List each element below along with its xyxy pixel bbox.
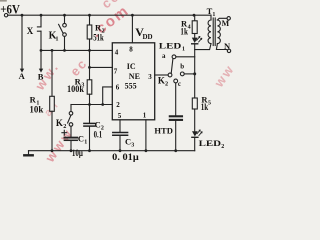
node dot rail-R1: [51, 149, 54, 152]
svg-text:51k: 51k: [93, 32, 104, 42]
node dot rail-pin8: [131, 14, 134, 17]
terminal M: [222, 17, 231, 29]
op IC U1 NE555 box: [112, 43, 154, 120]
svg-text:1k: 1k: [201, 102, 209, 112]
wire pins2-6 node line: [71, 104, 112, 106]
power terminal +6V: [0, 1, 20, 17]
resistor R4 1k: [180, 15, 197, 37]
node dot pin7: [88, 66, 91, 69]
node dot R3-C2: [88, 103, 91, 106]
svg-text:2: 2: [63, 123, 66, 130]
svg-text:C: C: [95, 119, 101, 129]
buzzer HTD: [154, 83, 182, 151]
node dot rail-pin1: [145, 149, 148, 152]
node dot rail-R2: [88, 14, 91, 17]
wire VDD pin8: [132, 15, 152, 43]
wire R2 to pin7: [89, 50, 91, 67]
node dot b junction: [193, 72, 196, 75]
svg-text:1: 1: [212, 12, 215, 18]
svg-text:2: 2: [165, 80, 168, 87]
svg-text:b: b: [180, 63, 184, 71]
svg-text:a: a: [162, 52, 166, 60]
svg-text:1: 1: [182, 46, 185, 52]
svg-text:1: 1: [55, 36, 58, 43]
svg-text:10μ: 10μ: [72, 148, 83, 158]
ground: [24, 151, 32, 156]
resistor R1 10k: [29, 50, 54, 150]
switch K2 selector: [158, 52, 184, 88]
node dot rail-K1: [63, 14, 66, 17]
svg-text:NE: NE: [129, 72, 140, 81]
svg-text:DD: DD: [143, 33, 153, 41]
node dot B-line left: [40, 49, 43, 52]
svg-text:1: 1: [84, 139, 87, 145]
LED1: [159, 37, 202, 53]
svg-text:M: M: [222, 19, 230, 28]
svg-text:c: c: [178, 80, 181, 88]
wire LED2 to rail: [194, 137, 196, 150]
svg-text:10k: 10k: [29, 104, 43, 114]
svg-text:555: 555: [125, 82, 137, 91]
svg-text:4: 4: [188, 24, 191, 30]
capacitor C1 10u electrolytic: [62, 130, 87, 158]
node dot rail-HTD: [174, 149, 177, 152]
resistor R3 100k: [67, 67, 92, 104]
svg-text:A: A: [19, 71, 26, 81]
node dot R2 bottom: [88, 49, 91, 52]
svg-text:5: 5: [208, 101, 211, 107]
svg-text:7: 7: [114, 68, 118, 76]
svg-text:2: 2: [221, 144, 224, 150]
switch K1: [49, 15, 67, 50]
svg-text:5: 5: [118, 112, 122, 120]
transformer T1: [195, 6, 228, 50]
svg-text:0. 01μ: 0. 01μ: [112, 152, 139, 162]
wire pin3 to K2: [155, 74, 168, 76]
node dot pin6 branch: [101, 103, 104, 106]
svg-text:LED: LED: [159, 40, 182, 50]
jack X: [27, 15, 41, 50]
resistor R5 1k: [192, 95, 211, 131]
scan corner mark: [0, 0, 6, 2]
capacitor C3 0.01u on pin5: [112, 120, 139, 162]
svg-text:IC: IC: [127, 62, 136, 71]
svg-text:HTD: HTD: [154, 126, 173, 136]
svg-text:K: K: [158, 76, 165, 86]
resistor R2 51k: [87, 15, 104, 50]
node dot rail-C3: [119, 149, 122, 152]
capacitor C2 0.1: [84, 105, 104, 151]
wire node-B horizontal to pin4: [41, 49, 112, 51]
switch K3: [56, 105, 73, 137]
svg-text:3: 3: [131, 143, 134, 149]
svg-text:X: X: [27, 26, 34, 36]
probe A: [19, 15, 26, 81]
terminal N: [224, 41, 231, 53]
wire contact a to LED1 node: [176, 56, 195, 58]
svg-text:3: 3: [148, 73, 152, 81]
svg-text:0.1: 0.1: [94, 129, 103, 139]
node dot rail-C2: [88, 149, 91, 152]
watermark www.elecfans.com diagonal: [32, 0, 238, 166]
svg-text:1k: 1k: [180, 27, 188, 37]
svg-text:K: K: [56, 118, 63, 128]
node dot rail-R4: [193, 14, 196, 17]
wire ground rail: [29, 150, 195, 152]
svg-text:C: C: [125, 137, 131, 147]
node dot R1 top: [51, 49, 54, 52]
wire pin1 to ground rail: [145, 120, 147, 151]
svg-text:1: 1: [143, 112, 147, 120]
probe B: [38, 50, 44, 81]
LED2: [192, 130, 224, 150]
node dot rail-A: [21, 14, 24, 17]
svg-text:N: N: [224, 41, 231, 51]
svg-text:+6V: +6V: [0, 1, 20, 16]
svg-text:LED: LED: [199, 138, 222, 148]
node dot K1 bottom: [63, 49, 66, 52]
svg-text:B: B: [38, 71, 44, 81]
wire contact b to R5 node: [184, 73, 195, 75]
svg-text:4: 4: [115, 49, 119, 57]
wire pin6 branch: [103, 87, 113, 105]
wire LED1 to rail corner node: [194, 44, 196, 98]
node dot rail-C1: [70, 149, 73, 152]
svg-text:100k: 100k: [67, 84, 84, 94]
svg-text:8: 8: [129, 46, 133, 54]
svg-text:2: 2: [116, 101, 120, 109]
wire top +6V rail: [8, 14, 211, 16]
svg-text:6: 6: [116, 84, 120, 92]
node dot rail-X: [40, 14, 43, 17]
wire pin7 horizontal: [90, 66, 113, 68]
svg-text:C: C: [78, 133, 84, 143]
